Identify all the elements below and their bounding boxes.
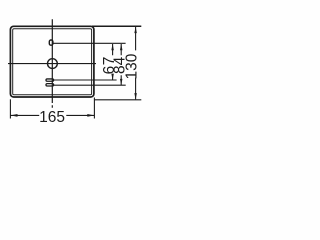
label 67: [101, 56, 118, 74]
arrow down 67: [111, 74, 114, 80]
arrow left 165: [11, 114, 18, 117]
top edge extension line: [92, 25, 141, 27]
extension line from upper slot: [53, 42, 125, 44]
lower slot B: [46, 84, 54, 86]
arrow up 67: [111, 44, 114, 50]
label 84: [112, 56, 129, 74]
extension line from lower slot A: [54, 79, 117, 81]
upper slot: [49, 40, 53, 45]
vertical centerline: [51, 19, 53, 108]
svg-text:165: 165: [39, 109, 65, 126]
arrow up 130: [134, 27, 137, 33]
lower slot A: [46, 79, 54, 81]
plate inner outline: [13, 29, 92, 95]
arrow right 165: [87, 114, 94, 117]
plate outer outline: [10, 26, 94, 97]
circle hole: [48, 59, 58, 69]
svg-text:130: 130: [123, 53, 140, 79]
dimension line 84: [120, 44, 122, 85]
dimension line 165: [10, 114, 94, 116]
arrow down 84: [120, 79, 123, 85]
dimension line 130: [135, 27, 137, 100]
extension line from lower slot B: [54, 84, 126, 86]
bottom edge extension line: [94, 99, 141, 101]
label 130: [123, 53, 140, 79]
right extension line of 165 dim: [93, 98, 95, 119]
arrow down 130: [134, 93, 137, 99]
arrow up 84: [120, 44, 123, 50]
left extension line of 165 dim: [9, 99, 11, 118]
horizontal centerline of circle: [8, 63, 96, 65]
dimension line 67: [112, 44, 114, 80]
